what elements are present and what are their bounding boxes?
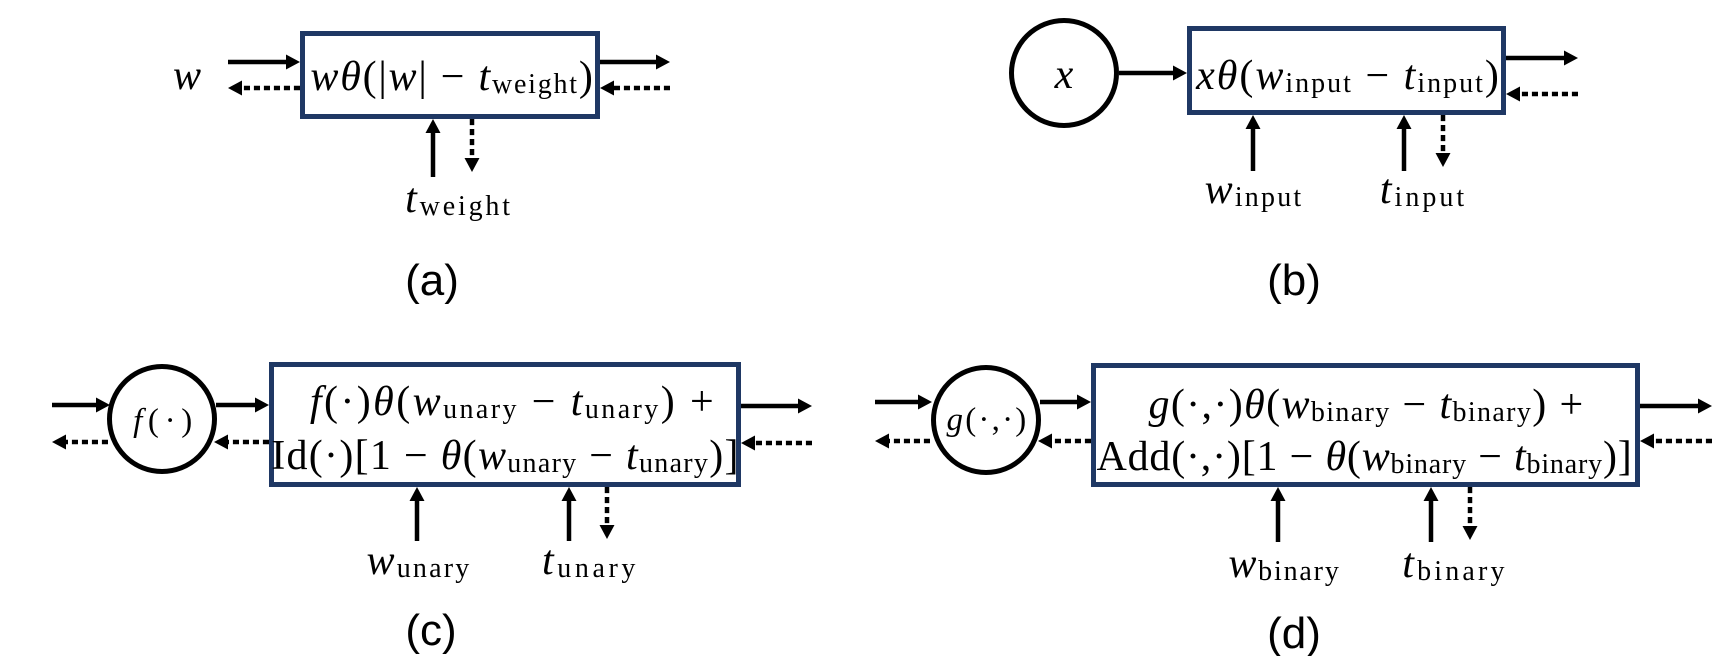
- svg-text:f(·): f(·): [133, 403, 198, 439]
- svg-text:(c): (c): [405, 606, 456, 655]
- svg-text:(d): (d): [1267, 609, 1321, 656]
- svg-text:x: x: [1054, 52, 1074, 98]
- svg-text:(b): (b): [1267, 256, 1321, 305]
- svg-text:w: w: [173, 53, 201, 99]
- svg-text:g(·,·): g(·,·): [947, 402, 1029, 438]
- svg-text:(a): (a): [405, 256, 459, 305]
